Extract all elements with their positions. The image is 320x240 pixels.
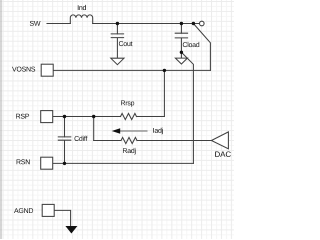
label Cout <box>119 41 133 46</box>
wire AGND lead <box>54 210 70 226</box>
capacitor Cout <box>111 34 123 58</box>
wire Rrsp vertical branch <box>163 70 165 116</box>
label Cdiff <box>75 136 88 141</box>
terminal AGND <box>42 204 54 216</box>
label Rrsp <box>121 101 134 107</box>
wire Cload upper lead <box>180 24 182 34</box>
node: VOSNS/Rrsp junction <box>163 69 166 72</box>
wire RSP line left part <box>53 116 121 118</box>
resistor Radj <box>121 137 137 143</box>
output terminal circle <box>200 21 205 26</box>
capacitor Cload <box>175 33 187 52</box>
label Ind <box>78 5 86 10</box>
label VOSNS <box>12 67 35 72</box>
node: Cload ground junction <box>180 51 183 54</box>
resistor Rrsp <box>121 113 137 119</box>
inductor Ind <box>70 15 92 24</box>
wire inductor to output terminal <box>93 23 200 25</box>
op-amp U1 DAC buffer triangle <box>211 132 228 149</box>
ground (solid) AGND <box>65 226 77 234</box>
label Radj <box>123 148 136 155</box>
terminal RSP <box>41 111 53 123</box>
wire Cout upper lead <box>116 24 118 34</box>
wire RSP line right part <box>137 116 165 118</box>
label AGND <box>14 208 33 213</box>
node: RSP/Cdiff junction <box>63 115 66 118</box>
wire diagonal from output node to feedback <box>193 24 210 71</box>
node: output at Cout <box>116 22 119 25</box>
current arrow Iadj <box>120 130 148 132</box>
wire SW to inductor <box>47 23 70 25</box>
terminal VOSNS <box>41 64 53 76</box>
label RSP <box>16 114 29 119</box>
ground (open) under Cload <box>175 58 187 64</box>
wire Radj vertical branch <box>93 117 95 141</box>
label Iadj <box>153 128 163 135</box>
wire Cload lower stub <box>180 52 182 58</box>
node: output at feedback tap <box>192 22 195 25</box>
label Cload <box>183 42 199 47</box>
label DAC <box>215 152 231 158</box>
page edge left <box>0 0 2 239</box>
wire Radj line to DAC <box>137 140 211 142</box>
node: output at Cload <box>180 22 183 25</box>
wire RSN line <box>53 162 194 164</box>
wire Cdiff upper lead <box>64 117 66 137</box>
label RSN <box>17 159 30 164</box>
terminal RSN <box>41 157 53 169</box>
label SW <box>30 21 41 26</box>
wire VOSNS sense line <box>53 69 210 71</box>
node: RSN/Cdiff junction <box>63 162 66 165</box>
wire ground return vertical <box>181 52 193 163</box>
node: RSP/Radj junction <box>92 115 95 118</box>
wire Radj line left part <box>94 140 121 142</box>
capacitor Cdiff <box>58 137 71 164</box>
ground (open) under Cout <box>111 58 124 64</box>
